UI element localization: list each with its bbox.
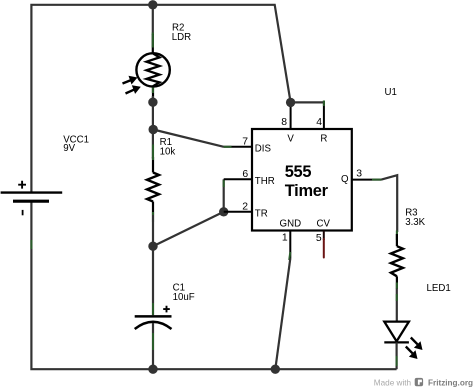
junction node TR pin end <box>219 207 228 216</box>
C1 curved plate <box>135 322 172 329</box>
resistor R1 <box>147 145 159 223</box>
green mark LDR bottom pin end <box>152 88 154 94</box>
green mark LED top pin <box>396 294 398 301</box>
green mark C1 top pin <box>152 303 154 315</box>
svg-text:3: 3 <box>356 169 362 180</box>
svg-text:GND: GND <box>280 218 302 229</box>
R3 zigzag <box>391 246 403 276</box>
junction node R1 top / DIS branch <box>149 125 158 134</box>
green mark LED bottom pin <box>396 356 398 366</box>
LED light arrow 2 <box>406 347 418 360</box>
svg-text:3.3K: 3.3K <box>405 217 425 228</box>
svg-text:4: 4 <box>316 117 322 128</box>
pin 7 DIS stub <box>224 146 252 148</box>
green mark R3 bottom pin <box>396 283 398 290</box>
svg-text:Made with: Made with <box>374 379 412 388</box>
junction node pin8 V <box>286 98 295 107</box>
green mark R1 bottom pin end <box>152 212 154 222</box>
svg-text:10k: 10k <box>160 147 176 158</box>
pin 1 GND stub <box>289 231 291 259</box>
junction node R1/C1/TR <box>148 242 157 251</box>
wire pin8 node to pin4 <box>291 101 324 103</box>
svg-text:8: 8 <box>281 117 287 128</box>
fritzing logo <box>415 378 423 386</box>
wire diagonal node to DIS pin <box>153 130 224 147</box>
svg-text:9V: 9V <box>63 143 75 154</box>
pin 4 R stub <box>323 101 325 129</box>
C1 bottom pin <box>152 323 154 369</box>
wire LDR to R1 <box>152 96 154 159</box>
pin 8 V stub <box>290 101 292 129</box>
wire GND pin to bottom rail <box>275 259 290 370</box>
junction node bottom rail / GND <box>271 365 280 374</box>
LDR light arrow 2 <box>126 85 141 94</box>
LDR top pin <box>152 34 154 53</box>
green mark R pin end <box>323 101 325 107</box>
junction node bottom rail / C1 <box>148 365 157 374</box>
svg-text:THR: THR <box>255 176 275 187</box>
IC U1 555 timer <box>224 101 382 259</box>
pin 2 TR stub <box>224 211 252 213</box>
C1 top pin <box>152 246 154 315</box>
svg-text:U1: U1 <box>385 87 397 98</box>
green mark GND wire start <box>289 252 290 260</box>
capacitor C1 <box>135 246 172 369</box>
wire battery to bottom rail <box>31 201 396 369</box>
C1 top plate <box>135 315 172 318</box>
LED bottom pin <box>396 342 398 369</box>
svg-text:TR: TR <box>255 209 268 220</box>
R1 top pin <box>152 157 154 173</box>
resistor R3 <box>391 231 403 290</box>
LDR light arrow 1 <box>123 76 138 85</box>
green mark C1 bottom pin <box>152 333 154 350</box>
battery plus plate <box>1 191 63 193</box>
LED anode triangle <box>384 322 409 342</box>
svg-text:2: 2 <box>242 201 248 212</box>
green mark R3 top pin <box>396 231 398 241</box>
battery VCC1 <box>1 181 63 216</box>
wire R3 to LED <box>396 289 398 322</box>
svg-text:7: 7 <box>242 136 248 147</box>
pin 6 THR stub <box>224 178 252 180</box>
junction node below LDR <box>148 98 157 107</box>
green mark battery minus pin end <box>30 240 32 249</box>
wire top rail and diagonal to pin8 node <box>31 5 290 193</box>
battery plus sign <box>18 181 26 189</box>
battery minus mark <box>22 210 24 215</box>
LED cathode bar <box>384 341 409 343</box>
R3 bottom pin <box>396 276 398 288</box>
svg-text:1: 1 <box>282 232 288 243</box>
LED light arrow 1 <box>411 338 423 351</box>
wire diagonal junction to TR node <box>153 212 224 246</box>
svg-text:LDR: LDR <box>172 32 191 43</box>
R3 top pin <box>396 234 398 246</box>
LDR zigzag <box>147 53 160 86</box>
junction node top rail / LDR <box>148 0 157 9</box>
pin 3 Q stub <box>352 179 382 181</box>
svg-text:DIS: DIS <box>255 144 272 155</box>
pin 5 CV stub unconnected <box>323 231 325 241</box>
R1 zigzag <box>147 173 159 202</box>
green mark LDR top pin <box>152 33 154 48</box>
green mark R1 top pin end <box>152 145 154 161</box>
R1 bottom pin <box>152 202 154 216</box>
svg-text:555: 555 <box>285 163 312 181</box>
svg-text:CV: CV <box>316 218 330 229</box>
svg-text:Fritzing.org: Fritzing.org <box>428 379 473 388</box>
LDR bottom pin <box>152 87 154 99</box>
svg-text:10uF: 10uF <box>173 292 195 303</box>
svg-text:Timer: Timer <box>285 182 329 200</box>
wire LDR branch from top rail <box>152 5 154 35</box>
svg-text:V: V <box>287 134 294 145</box>
IC body <box>252 129 352 231</box>
svg-text:Q: Q <box>341 174 349 185</box>
green mark THR pin end <box>223 180 225 187</box>
wire R1 to C1 junction <box>152 215 154 246</box>
green mark Q pin end <box>372 179 381 181</box>
wire Q pin to R3 <box>381 175 397 232</box>
LDR body circle <box>136 53 169 86</box>
svg-text:6: 6 <box>242 169 248 180</box>
green mark DIS pin end <box>224 146 232 148</box>
wire THR to TR vertical <box>223 179 225 212</box>
battery minus plate <box>13 200 49 203</box>
C1 plus sign <box>163 306 170 313</box>
svg-text:5: 5 <box>316 233 322 244</box>
svg-text:LED1: LED1 <box>427 283 451 294</box>
svg-text:R: R <box>320 134 327 145</box>
LED LED1 <box>384 322 422 370</box>
LDR R2 <box>123 33 170 99</box>
